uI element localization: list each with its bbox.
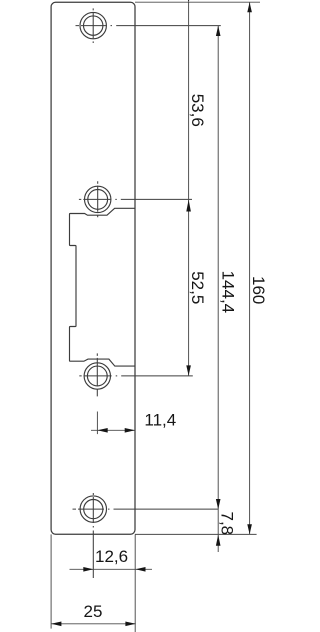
extension line left edge below plate — [50, 534, 52, 628]
svg-text:12,6: 12,6 — [95, 547, 128, 566]
arrow left — [97, 428, 107, 433]
dimension line 160 — [249, 2, 251, 534]
hole H4 centerline vertical — [92, 493, 94, 578]
dimension line 11,4 — [91, 429, 135, 431]
hole H1 outer — [80, 12, 106, 38]
arrow up at hole1 line — [216, 26, 221, 36]
arrow right end — [125, 622, 135, 627]
hole H3 outer — [84, 363, 110, 389]
svg-text:144,4: 144,4 — [218, 271, 237, 314]
extension line top edge — [135, 1, 260, 3]
arrow down at hole3 line — [186, 365, 191, 375]
svg-text:53,6: 53,6 — [188, 94, 207, 127]
arrow up at top — [247, 2, 252, 12]
dimension line 12,6 — [70, 568, 153, 570]
arrow down at bottom — [247, 524, 252, 534]
hole H3 centerline vertical — [96, 353, 98, 397]
svg-text:52,5: 52,5 — [188, 271, 207, 304]
hole H4 centerline horizontal — [73, 508, 219, 510]
arrow right at hole4 centerline — [83, 567, 93, 572]
arrow left end — [51, 622, 61, 627]
dimension line 25 — [51, 623, 136, 625]
latch cutout contour — [70, 208, 136, 366]
hole H2 centerline vertical — [97, 181, 99, 218]
extension line bottom edge — [135, 533, 257, 535]
svg-text:7,8: 7,8 — [218, 512, 237, 536]
arrow up below bottom edge (7,8) — [216, 535, 221, 546]
hole H1 inner — [84, 16, 103, 35]
plate outline — [51, 2, 135, 534]
extension line right edge below plate — [134, 534, 136, 632]
arrow right — [125, 428, 135, 433]
hole H3 inner — [87, 366, 107, 386]
dimension line 144,4 / 7,8 — [217, 26, 219, 552]
hole H4 outer — [80, 496, 106, 522]
hole H2 centerline horizontal — [79, 198, 192, 200]
svg-text:11,4: 11,4 — [144, 411, 176, 430]
hole H1 centerline horizontal — [76, 25, 221, 27]
arrow left at right edge — [136, 567, 146, 572]
dimension line 53,6 / 52,5 — [188, 2, 190, 376]
arrow up below hole2 line — [186, 200, 191, 212]
arrow down at hole4 line — [216, 499, 221, 509]
hole H2 outer — [85, 186, 111, 212]
svg-text:160: 160 — [249, 276, 268, 304]
svg-text:25: 25 — [84, 602, 103, 621]
hole H1 centerline vertical — [92, 8, 94, 43]
hole H3 centerline horizontal — [79, 375, 193, 377]
hole H2 inner — [88, 190, 108, 210]
hole H4 inner — [84, 500, 103, 519]
arrow (clipped, outside) at top edge — [187, 0, 191, 3]
dimension 11,4 extension stub — [96, 412, 98, 435]
